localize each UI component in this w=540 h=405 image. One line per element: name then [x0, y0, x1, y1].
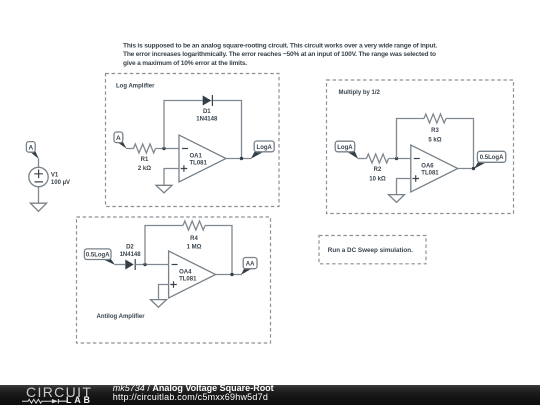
svg-text:Run a DC Sweep simulation.: Run a DC Sweep simulation.: [328, 247, 413, 254]
svg-text:V1: V1: [51, 172, 59, 178]
wire feedback: [164, 101, 242, 159]
node junction: [143, 263, 146, 266]
node A flag (log amp input): [114, 132, 127, 149]
node junction: [395, 157, 398, 160]
wire: [38, 158, 40, 167]
op-amp OA1: [179, 135, 226, 182]
CircuitLab logo LAB: [66, 396, 93, 405]
svg-text:100 µV: 100 µV: [51, 180, 70, 186]
node junction: [472, 167, 475, 170]
svg-text:TL081: TL081: [190, 161, 208, 167]
footer title text: [113, 384, 274, 401]
svg-text:R1: R1: [141, 157, 149, 163]
svg-text:LogA: LogA: [337, 145, 353, 151]
svg-text:R3: R3: [431, 128, 439, 134]
svg-text:2 kΩ: 2 kΩ: [138, 166, 151, 172]
node junction: [230, 273, 233, 276]
wire: [115, 264, 126, 266]
wire feedback: [145, 226, 232, 275]
voltage source V1: [29, 167, 48, 186]
svg-text:0.5LogA: 0.5LogA: [480, 155, 504, 161]
diode D2: [125, 259, 135, 270]
svg-text:OA6: OA6: [421, 164, 434, 170]
wire output: [226, 158, 251, 160]
ground: [156, 185, 172, 193]
ground: [30, 203, 46, 211]
diode D1: [203, 95, 213, 106]
V1 value label: [51, 172, 70, 186]
svg-text:1 MΩ: 1 MΩ: [187, 245, 202, 251]
svg-text:1N4148: 1N4148: [196, 117, 218, 123]
svg-text:Antilog Amplifier: Antilog Amplifier: [97, 314, 146, 320]
R4 value label: [187, 236, 202, 251]
svg-text:0.5LogA: 0.5LogA: [86, 253, 110, 259]
svg-text:R2: R2: [374, 167, 382, 173]
R1 value label: [138, 157, 151, 172]
node LogA flag: [251, 141, 274, 159]
svg-text:give a maximum of 10% error at: give a maximum of 10% error at the limit…: [123, 60, 247, 67]
wire: [397, 179, 411, 195]
Log Amplifier box: [106, 74, 280, 207]
node junction: [162, 147, 165, 150]
CircuitLab logo CIRCUIT: [26, 385, 92, 399]
svg-text:AA: AA: [246, 262, 255, 268]
resistor R1: [134, 144, 156, 153]
wire output: [458, 168, 475, 170]
svg-text:Log Amplifier: Log Amplifier: [116, 84, 155, 90]
op-amp OA6: [411, 145, 458, 192]
svg-text:D1: D1: [203, 109, 211, 115]
wire: [38, 187, 40, 204]
wire: [159, 285, 169, 300]
Multiply by 1/2 box: [327, 80, 514, 214]
wire: [126, 148, 134, 150]
CircuitLab logo squiggle: [22, 396, 68, 404]
svg-text:Multiply by 1/2: Multiply by 1/2: [339, 90, 381, 96]
ground: [389, 195, 405, 203]
wire: [135, 264, 168, 266]
svg-text:5 kΩ: 5 kΩ: [428, 138, 441, 144]
resistor R2: [367, 154, 389, 163]
resistor R4: [183, 221, 205, 230]
Run a DC Sweep simulation box: [319, 236, 426, 264]
svg-text:The error increases logarithmi: The error increases logarithmically. The…: [123, 51, 436, 58]
resistor R3: [424, 114, 446, 123]
svg-text:This is supposed to be an anal: This is supposed to be an analog square-…: [123, 43, 437, 50]
svg-text:R4: R4: [190, 236, 198, 242]
node A flag (source): [26, 142, 38, 159]
node 0.5LogA flag (input): [84, 249, 115, 265]
wire output: [216, 274, 242, 276]
svg-text:LogA: LogA: [257, 145, 273, 151]
svg-text:OA4: OA4: [179, 270, 192, 276]
node AA flag: [241, 258, 257, 275]
svg-text:TL081: TL081: [421, 171, 439, 177]
R2 value label: [369, 167, 386, 183]
node LogA flag (input): [335, 141, 358, 159]
ground: [151, 300, 167, 308]
wire: [389, 158, 411, 160]
svg-text:OA1: OA1: [190, 154, 203, 160]
node junction: [240, 157, 243, 160]
wire: [156, 148, 180, 150]
node 0.5LogA flag: [474, 151, 506, 168]
wire: [358, 158, 367, 160]
svg-text:A: A: [116, 135, 121, 142]
D2 value label: [120, 245, 142, 259]
svg-text:A: A: [28, 144, 33, 151]
Antilog Amplifier box: [77, 217, 271, 343]
op-amp OA4: [169, 251, 216, 298]
svg-text:1N4148: 1N4148: [120, 252, 142, 258]
svg-text:TL081: TL081: [179, 277, 197, 283]
svg-text:D2: D2: [126, 245, 134, 251]
R3 value label: [428, 128, 441, 144]
wire feedback: [397, 119, 474, 169]
description text: [123, 43, 437, 67]
svg-text:10 kΩ: 10 kΩ: [369, 177, 386, 183]
footer bar: [0, 385, 540, 405]
wire: [164, 169, 179, 186]
D1 value label: [196, 109, 218, 123]
